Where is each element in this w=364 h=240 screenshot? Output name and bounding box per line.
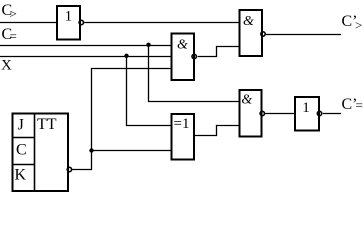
AND U2 output bubble: [192, 54, 196, 58]
svg-text:&: &: [243, 14, 254, 29]
svg-text:=: =: [10, 29, 17, 44]
svg-text:=: =: [356, 98, 363, 113]
wire AND U2 output jog to AND U3 input: [198, 47, 240, 57]
wire AND U3 output to Cgt': [266, 34, 341, 36]
svg-text:J: J: [18, 117, 24, 134]
wire from riser dot to XOR U5 input: [92, 150, 172, 152]
label C'= (output): [342, 96, 363, 113]
junction dot on flip-flop riser: [89, 148, 93, 152]
svg-text:&: &: [177, 38, 188, 53]
inverter U1 box "1": [57, 6, 80, 40]
svg-text:>: >: [10, 6, 17, 21]
svg-text:X: X: [1, 58, 12, 74]
label C> (input Cgt): [2, 2, 17, 21]
AND U4 output bubble: [260, 111, 264, 115]
inverter U1 output bubble: [79, 20, 83, 24]
inverter U6 box "1" (right): [295, 97, 319, 131]
wire inverter U6 output to Ceq': [323, 113, 341, 115]
wire riser from Ceq dot down to AND U4 input: [149, 46, 240, 102]
wire riser from X dot down to XOR U5 input: [127, 57, 172, 126]
svg-text:&: &: [241, 93, 252, 108]
svg-text:1: 1: [302, 100, 310, 116]
JK flip-flop U7 box: [13, 114, 69, 192]
AND gate U2 box "&": [172, 34, 195, 81]
AND U3 output bubble: [261, 32, 265, 36]
flip-flop U7 output bubble: [67, 167, 71, 171]
wire flip-flop output up to AND U2 input: [72, 69, 171, 170]
wire Cgt input to inverter U1: [0, 22, 57, 24]
XOR gate U5 box "=1": [172, 114, 195, 160]
wire X input: [0, 56, 172, 58]
wire inverter U1 output to AND U3 input: [84, 22, 239, 24]
svg-text:=1: =1: [174, 116, 190, 132]
svg-text:1: 1: [65, 9, 73, 25]
junction dot on X wire: [124, 54, 128, 58]
wire AND U4 output to inverter U6: [265, 113, 295, 115]
label C= (input Ceq): [2, 26, 17, 44]
svg-text:C: C: [16, 142, 27, 159]
label C'> (output): [342, 13, 363, 33]
wire XOR U5 output jog to AND U4 input: [194, 126, 240, 136]
AND gate U4 box "&" (bottom right): [240, 90, 262, 137]
inverter U6 output bubble: [317, 111, 321, 115]
wire Ceq input: [0, 45, 172, 47]
svg-text:>: >: [355, 18, 362, 33]
svg-text:K: K: [15, 167, 27, 184]
svg-text:TT: TT: [37, 116, 57, 133]
junction dot on Ceq wire: [146, 43, 150, 47]
AND gate U3 box "&" (top right): [240, 10, 263, 56]
